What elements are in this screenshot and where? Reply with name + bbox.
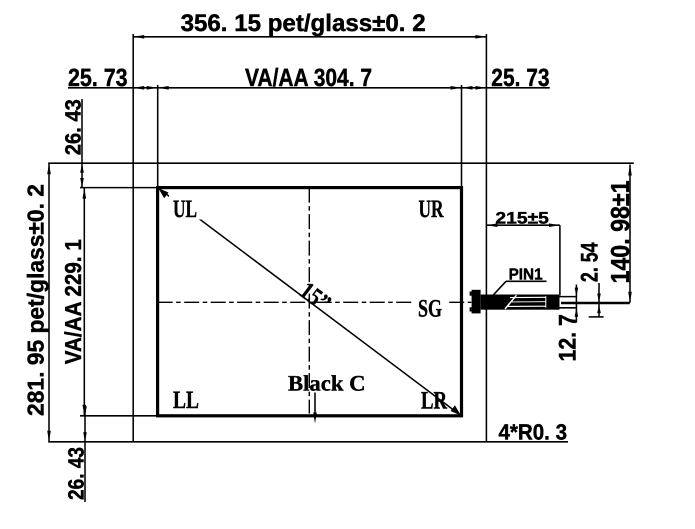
connector pin wire — [561, 302, 630, 305]
diagonal arrowhead lower-right — [451, 405, 461, 415]
svg-text:UR: UR — [419, 196, 445, 223]
dimension line 356.15 pet/glass — [133, 36, 486, 38]
connector body — [481, 295, 560, 310]
panel outline bottom edge extended (also 4*R0.3 underline) — [48, 441, 568, 443]
PIN1 leader line — [493, 281, 507, 296]
diagonal arrowhead upper-left — [158, 188, 168, 198]
VA/AA top edge extension to left dim — [80, 187, 157, 189]
arrow 26.43top upper — [80, 163, 84, 173]
arrow 281.95 top — [47, 163, 51, 174]
arrow 229.1 top — [83, 188, 87, 199]
arrow 25.73L at 133.2 — [133, 86, 144, 90]
svg-text:356. 15 pet/glass±0. 2: 356. 15 pet/glass±0. 2 — [181, 10, 426, 37]
tick at bottom of 2.54 dim — [589, 316, 604, 318]
arrow 2.54 top — [597, 294, 601, 303]
arrows at 461.5 both sides — [451, 86, 462, 90]
vertical center line, dash-dot — [308, 188, 310, 414]
arrow 26.43bot lower — [83, 432, 87, 442]
svg-text:140. 98±1: 140. 98±1 — [605, 181, 635, 284]
arrow 2.54 bottom — [597, 305, 601, 314]
svg-text:26. 43: 26. 43 — [61, 99, 86, 155]
arrow 140.98 top — [628, 165, 632, 176]
dimension line 140.98 vertical — [629, 165, 631, 303]
dimension line 281.95 pet/glass vertical — [48, 163, 50, 442]
dimension line 2.54 — [598, 283, 600, 317]
screen diagonal 15 inch line — [158, 188, 461, 416]
horizontal center line (SG axis), dash-dot — [158, 301, 472, 303]
panel outline top edge extended to side dims — [48, 162, 634, 164]
arrow 229.1 bottom — [83, 405, 87, 416]
arrow 12.7 top — [575, 288, 579, 297]
svg-text:PIN1: PIN1 — [509, 267, 543, 284]
dimension line 26.43 bottom — [84, 410, 86, 502]
svg-text:LR: LR — [421, 388, 448, 415]
svg-text:215±5: 215±5 — [495, 209, 549, 227]
svg-text:LL: LL — [173, 387, 199, 414]
connector body white end gap — [545, 296, 547, 307]
dimension line 12.7 — [575, 285, 577, 323]
arrow 12.7 bottom — [575, 308, 579, 317]
connector body white diagonal streak — [505, 295, 517, 309]
dimension line row 25.73 / VA-AA 304.7 / 25.73 — [68, 87, 550, 89]
svg-text:VA/AA 304. 7: VA/AA 304. 7 — [245, 64, 372, 92]
connector tail outline top — [560, 296, 576, 298]
arrow 215 right — [549, 223, 560, 227]
VA/AA right extension line — [461, 85, 463, 188]
Black C pointer arrow — [313, 413, 317, 424]
arrow 281.95 bottom — [47, 431, 51, 442]
connector body white slot lines — [510, 296, 546, 298]
svg-text:25. 73: 25. 73 — [491, 64, 549, 92]
svg-text:25. 73: 25. 73 — [68, 64, 128, 92]
arrow 25.73R at 486.4 — [475, 86, 486, 90]
svg-text:281. 95 pet/glass±0. 2: 281. 95 pet/glass±0. 2 — [22, 184, 48, 416]
svg-text:2. 54: 2. 54 — [576, 242, 603, 282]
svg-text:Black C: Black C — [288, 371, 366, 396]
connector flange at panel edge — [472, 290, 481, 314]
VA/AA bottom edge extension to left dim — [80, 415, 157, 417]
svg-text:SG: SG — [418, 296, 442, 323]
panel outline right edge + extension to top dim — [485, 34, 487, 442]
PIN1 underline — [506, 280, 547, 282]
VA/AA left extension line — [157, 85, 159, 188]
arrow 356.15 right — [475, 35, 486, 39]
Black C pointer line — [314, 393, 316, 417]
dimension line 26.43 top — [81, 99, 83, 188]
arrow 140.98 bottom — [628, 292, 632, 303]
svg-text:26. 43: 26. 43 — [64, 447, 89, 500]
active area thick rectangle — [158, 188, 462, 416]
arrow 356.15 left — [133, 35, 144, 39]
svg-text:VA/AA 229. 1: VA/AA 229. 1 — [60, 239, 86, 364]
svg-text:UL: UL — [173, 196, 197, 223]
arrow 26.43bot upper — [83, 406, 87, 416]
dimension line VA/AA 229.1 vertical — [83, 188, 85, 416]
panel outline left edge + extension to top dim — [132, 34, 134, 442]
arrow 215 left — [486, 223, 497, 227]
arrow 26.43top lower — [80, 178, 84, 188]
connector tail outline bottom — [560, 307, 576, 309]
arrows at 157.7 both sides — [147, 86, 158, 90]
extension line for 215 at connector tail — [559, 225, 561, 295]
svg-text:12. 7: 12. 7 — [555, 314, 582, 361]
svg-text:4*R0. 3: 4*R0. 3 — [499, 419, 568, 444]
dimension line 215+-5 — [486, 224, 560, 226]
white backing for SG label — [414, 296, 447, 318]
white backing for UL label — [169, 196, 201, 220]
